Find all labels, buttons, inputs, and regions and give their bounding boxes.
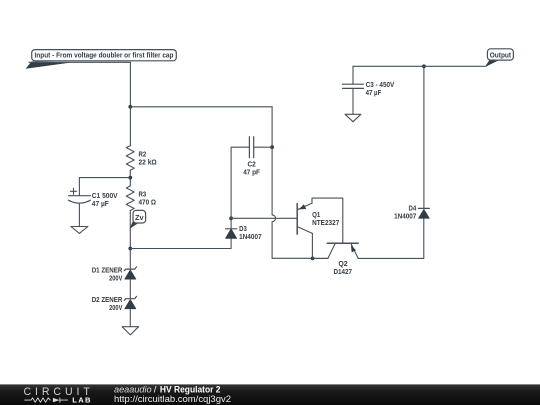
wire zener rail to D3: [130, 238, 231, 248]
svg-text:D4: D4: [409, 206, 417, 213]
diode D4: [394, 206, 429, 221]
wire input vertical: [129, 62, 131, 145]
wire Q1 emitter to Q2 base: [312, 198, 343, 243]
node Zv label: [130, 210, 146, 229]
svg-text:47 µF: 47 µF: [92, 201, 110, 208]
wire C2 branch vertical upper: [271, 107, 273, 147]
wire Q2 emitter rail to D4: [358, 218, 424, 258]
wire bottom rail to Q2 collector: [313, 257, 328, 259]
wire base Q1: [231, 217, 297, 219]
zener diode D2: [92, 296, 137, 312]
node junction D3 top: [229, 216, 233, 220]
ground zener stack: [122, 327, 139, 335]
capacitor C1: [68, 188, 118, 208]
wire output rail: [353, 65, 485, 67]
svg-text:/: /: [154, 384, 157, 394]
diode D3: [226, 218, 262, 241]
svg-text:D1427: D1427: [334, 269, 353, 276]
svg-text:47 pF: 47 pF: [243, 170, 260, 177]
resistor R2: [126, 146, 157, 171]
ground C1: [71, 227, 88, 234]
svg-text:Q1: Q1: [312, 212, 320, 219]
svg-text:C2: C2: [247, 162, 255, 169]
svg-text:200V: 200V: [109, 305, 123, 312]
svg-text:HV Regulator 2: HV Regulator 2: [160, 384, 221, 394]
wire D3 up to C2: [231, 147, 249, 218]
CircuitLab logo: [24, 386, 92, 405]
svg-text:R2: R2: [139, 151, 147, 158]
wire D1 to D2: [129, 279, 131, 299]
svg-text:Output: Output: [490, 53, 512, 60]
node junction output rail: [422, 64, 426, 68]
wire Q2 collector to junction: [313, 257, 328, 259]
wire Q1 collector down: [311, 233, 313, 258]
wire D2 to ground: [129, 309, 131, 327]
wire top horizontal to C2 branch: [130, 106, 272, 108]
svg-text:1N4007: 1N4007: [394, 214, 416, 221]
svg-text:http://circuitlab.com/cqj3gv2: http://circuitlab.com/cqj3gv2: [114, 394, 231, 404]
svg-text:470 Ω: 470 Ω: [139, 200, 157, 207]
svg-text:D3: D3: [239, 226, 247, 233]
svg-text:D1 ZENER: D1 ZENER: [92, 267, 123, 274]
svg-text:NTE2327: NTE2327: [312, 220, 339, 227]
node Output flag: [485, 49, 514, 68]
svg-text:1N4007: 1N4007: [239, 234, 262, 241]
svg-text:Zv: Zv: [135, 215, 144, 222]
footer bar: [0, 384, 540, 405]
node junction top: [128, 105, 132, 109]
svg-text:47 µF: 47 µF: [366, 90, 382, 97]
svg-text:22 kΩ: 22 kΩ: [139, 159, 158, 166]
svg-text:R3: R3: [139, 192, 147, 199]
svg-text:C1 500V: C1 500V: [92, 193, 118, 200]
svg-text:Q2: Q2: [338, 261, 347, 268]
wire junction to D1: [129, 249, 131, 270]
wire R3 to bottom junction: [129, 211, 131, 249]
wire bottom rail left: [272, 257, 313, 259]
svg-text:LAB: LAB: [72, 396, 91, 405]
capacitor C2: [243, 137, 272, 177]
wire C3 drop: [352, 66, 354, 84]
wire R2 to junction: [129, 170, 131, 186]
zener diode D1: [92, 267, 137, 283]
wire C2 branch vertical lower with hop: [272, 147, 275, 258]
node junction Q1 collector: [311, 257, 315, 261]
svg-text:Input - From voltage doubler o: Input - From voltage doubler or first fi…: [35, 52, 174, 59]
node Input flag: [26, 50, 177, 69]
wire C1 to ground: [78, 203, 80, 226]
svg-text:aeaaudio: aeaaudio: [114, 384, 152, 394]
transistor Q1: [297, 203, 339, 234]
svg-text:200V: 200V: [109, 275, 123, 282]
ground C3: [345, 114, 361, 121]
node junction R2-R3-C1: [128, 176, 132, 180]
wire C3 to ground: [352, 88, 354, 114]
resistor R3: [126, 186, 156, 211]
wire D4 up to output rail: [423, 66, 425, 208]
svg-text:C3 - 450V: C3 - 450V: [366, 82, 395, 89]
node junction C2 right: [270, 145, 274, 149]
node junction zener rail: [128, 247, 132, 251]
wire input top: [29, 61, 130, 63]
capacitor C3: [343, 82, 395, 97]
svg-text:D2 ZENER: D2 ZENER: [92, 297, 123, 304]
transistor Q2: [327, 243, 358, 276]
wire to C1: [79, 178, 130, 196]
